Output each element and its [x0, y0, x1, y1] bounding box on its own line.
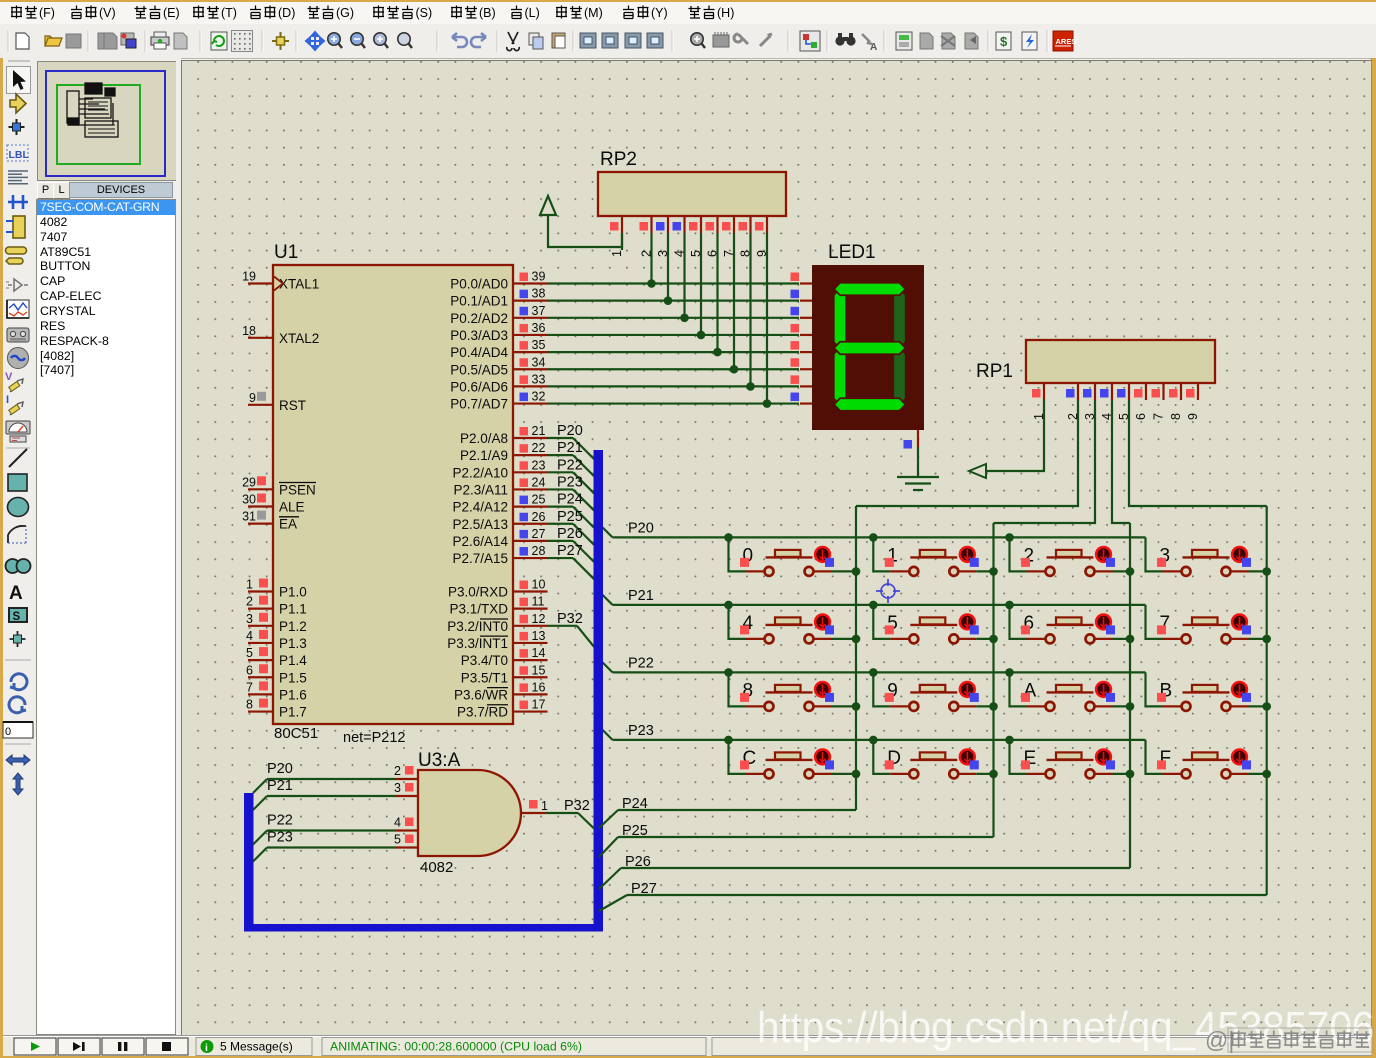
svg-text:16: 16: [532, 680, 546, 694]
svg-text:28: 28: [532, 544, 546, 558]
svg-text:P0.0/AD0: P0.0/AD0: [450, 277, 508, 292]
svg-text:P3.2/INT0: P3.2/INT0: [447, 619, 508, 634]
svg-text:P3.6/WR: P3.6/WR: [454, 687, 508, 702]
svg-text:net=P212: net=P212: [343, 730, 406, 746]
svg-text:RP2: RP2: [600, 149, 637, 170]
svg-text:80C51: 80C51: [274, 725, 318, 742]
svg-text:P2.4/A12: P2.4/A12: [452, 500, 508, 515]
svg-text:P3.3/INT1: P3.3/INT1: [447, 636, 508, 651]
svg-text:30: 30: [242, 493, 256, 507]
svg-text:(L): (L): [525, 6, 540, 20]
svg-text:XTAL1: XTAL1: [279, 277, 319, 292]
svg-text:P1.2: P1.2: [279, 619, 307, 634]
svg-text:P0.5/AD5: P0.5/AD5: [450, 362, 508, 377]
svg-text:25: 25: [532, 493, 546, 507]
svg-text:P0.7/AD7: P0.7/AD7: [450, 397, 508, 412]
svg-text:(S): (S): [416, 6, 433, 20]
svg-text:38: 38: [532, 287, 546, 301]
svg-text:P3.4/T0: P3.4/T0: [461, 653, 508, 668]
svg-text:ARES: ARES: [1056, 37, 1077, 46]
svg-text:35: 35: [532, 338, 546, 352]
svg-text:P25: P25: [622, 823, 648, 839]
svg-text:8: 8: [1169, 413, 1183, 420]
svg-text:@|: @|: [1205, 1027, 1234, 1053]
svg-text:I: I: [6, 394, 9, 406]
svg-text:(H): (H): [717, 6, 734, 20]
svg-text:(E): (E): [163, 6, 180, 20]
svg-text:P3.0/RXD: P3.0/RXD: [448, 585, 508, 600]
svg-text:P0.4/AD4: P0.4/AD4: [450, 345, 508, 360]
svg-text:P0.2/AD2: P0.2/AD2: [450, 311, 508, 326]
svg-text:8: 8: [246, 698, 253, 712]
svg-text:5: 5: [246, 646, 253, 660]
svg-text:LBL: LBL: [9, 149, 30, 161]
svg-text:P23: P23: [628, 723, 654, 739]
svg-text:V: V: [5, 371, 13, 383]
svg-text:18: 18: [242, 324, 256, 338]
svg-text:21: 21: [532, 424, 546, 438]
svg-text:3: 3: [394, 781, 401, 795]
svg-text:A: A: [9, 583, 23, 604]
svg-text:P1.7: P1.7: [279, 705, 307, 720]
svg-text:3: 3: [246, 612, 253, 626]
svg-text:9: 9: [249, 391, 256, 405]
svg-text:P2.7/A15: P2.7/A15: [452, 551, 508, 566]
svg-text:P1.5: P1.5: [279, 670, 307, 685]
svg-text:P27: P27: [631, 881, 657, 897]
svg-text:P21: P21: [557, 440, 583, 456]
svg-text:19: 19: [242, 270, 256, 284]
svg-text:11: 11: [532, 595, 545, 609]
svg-text:29: 29: [242, 475, 256, 489]
svg-text:0: 0: [5, 726, 11, 738]
svg-text:27: 27: [532, 527, 546, 541]
svg-text:P1.6: P1.6: [279, 687, 307, 702]
svg-text:EA: EA: [279, 517, 297, 532]
svg-text:P2.0/A8: P2.0/A8: [460, 431, 508, 446]
svg-text:P2.3/A11: P2.3/A11: [453, 482, 508, 497]
svg-text:P0.6/AD6: P0.6/AD6: [450, 379, 508, 394]
svg-text:P26: P26: [557, 526, 583, 542]
svg-text:P20: P20: [628, 520, 654, 536]
svg-text:P3.5/T1: P3.5/T1: [461, 670, 508, 685]
svg-text:P21: P21: [628, 588, 654, 604]
svg-text:4: 4: [394, 816, 401, 830]
svg-text:P23: P23: [557, 474, 583, 490]
svg-text:$: $: [1000, 34, 1008, 49]
svg-text:P22: P22: [628, 655, 654, 671]
svg-text:(G): (G): [336, 6, 354, 20]
svg-text:P3.7/RD: P3.7/RD: [457, 705, 508, 720]
svg-text:P2.1/A9: P2.1/A9: [460, 448, 508, 463]
svg-text:P25: P25: [557, 509, 583, 525]
svg-text:6: 6: [1134, 413, 1148, 420]
svg-text:39: 39: [532, 270, 546, 284]
svg-text:34: 34: [532, 355, 546, 369]
svg-text:(Y): (Y): [651, 6, 668, 20]
svg-text:2: 2: [394, 764, 401, 778]
svg-text:U1: U1: [274, 242, 298, 263]
svg-text:P1.1: P1.1: [279, 602, 307, 617]
svg-text:1: 1: [246, 578, 253, 592]
svg-text:13: 13: [532, 629, 546, 643]
svg-text:A: A: [870, 42, 877, 53]
svg-text:P1.3: P1.3: [279, 636, 307, 651]
svg-text:P0.1/AD1: P0.1/AD1: [450, 294, 508, 309]
svg-text:14: 14: [532, 646, 546, 660]
svg-text:12: 12: [532, 612, 546, 626]
svg-text:33: 33: [532, 372, 546, 386]
svg-text:22: 22: [532, 441, 546, 455]
svg-text:P27: P27: [557, 543, 583, 559]
svg-text:(B): (B): [479, 6, 496, 20]
svg-text:P3.1/TXD: P3.1/TXD: [449, 602, 508, 617]
svg-text:2: 2: [246, 595, 253, 609]
svg-text:15: 15: [532, 663, 546, 677]
svg-text:31: 31: [242, 510, 256, 524]
svg-text:4: 4: [246, 629, 253, 643]
svg-text:5 Message(s): 5 Message(s): [220, 1040, 293, 1054]
svg-text:(F): (F): [39, 6, 55, 20]
svg-text:23: 23: [532, 458, 546, 472]
svg-text:7: 7: [1152, 413, 1166, 420]
svg-text:1: 1: [541, 799, 548, 813]
svg-text:P26: P26: [625, 854, 651, 870]
svg-text:ANIMATING: 00:00:28.600000 (CP: ANIMATING: 00:00:28.600000 (CPU load 6%): [330, 1040, 582, 1054]
svg-text:P32: P32: [557, 611, 583, 627]
svg-text:(M): (M): [584, 6, 603, 20]
svg-text:9: 9: [1186, 413, 1200, 420]
svg-text:(V): (V): [99, 6, 116, 20]
svg-text:P20: P20: [267, 761, 293, 777]
svg-text:P23: P23: [267, 830, 293, 846]
svg-text:i: i: [205, 1042, 208, 1054]
svg-text:32: 32: [532, 390, 546, 404]
svg-text:RST: RST: [279, 398, 306, 413]
svg-text:P24: P24: [557, 492, 583, 508]
svg-text:XTAL2: XTAL2: [279, 331, 319, 346]
svg-text:P1.4: P1.4: [279, 653, 307, 668]
svg-text:PSEN: PSEN: [279, 482, 316, 497]
svg-text:(D): (D): [278, 6, 295, 20]
svg-text:1: 1: [610, 250, 624, 257]
svg-text:(T): (T): [221, 6, 237, 20]
svg-text:RP1: RP1: [976, 361, 1013, 382]
svg-text:P21: P21: [267, 778, 293, 794]
svg-text:26: 26: [532, 510, 546, 524]
svg-text:P2.5/A13: P2.5/A13: [452, 517, 508, 532]
svg-text:37: 37: [532, 304, 546, 318]
svg-text:U3:A: U3:A: [418, 750, 461, 771]
svg-text:6: 6: [246, 663, 253, 677]
svg-text:P22: P22: [267, 813, 293, 829]
svg-text:P2.2/A10: P2.2/A10: [452, 465, 508, 480]
svg-text:4082: 4082: [420, 859, 453, 876]
svg-text:17: 17: [532, 698, 546, 712]
svg-text:ALE: ALE: [279, 500, 305, 515]
svg-text:P0.3/AD3: P0.3/AD3: [450, 328, 508, 343]
svg-text:P22: P22: [557, 457, 583, 473]
svg-text:24: 24: [532, 475, 546, 489]
svg-text:7: 7: [246, 680, 253, 694]
svg-text:5: 5: [394, 833, 401, 847]
svg-text:10: 10: [532, 578, 546, 592]
svg-text:36: 36: [532, 321, 546, 335]
svg-text:P2.6/A14: P2.6/A14: [452, 534, 508, 549]
svg-text:S: S: [13, 611, 21, 623]
svg-text:P24: P24: [622, 796, 648, 812]
svg-text:P1.0: P1.0: [279, 585, 307, 600]
svg-text:P32: P32: [564, 798, 590, 814]
svg-text:P20: P20: [557, 423, 583, 439]
svg-text:LED1: LED1: [828, 242, 876, 263]
